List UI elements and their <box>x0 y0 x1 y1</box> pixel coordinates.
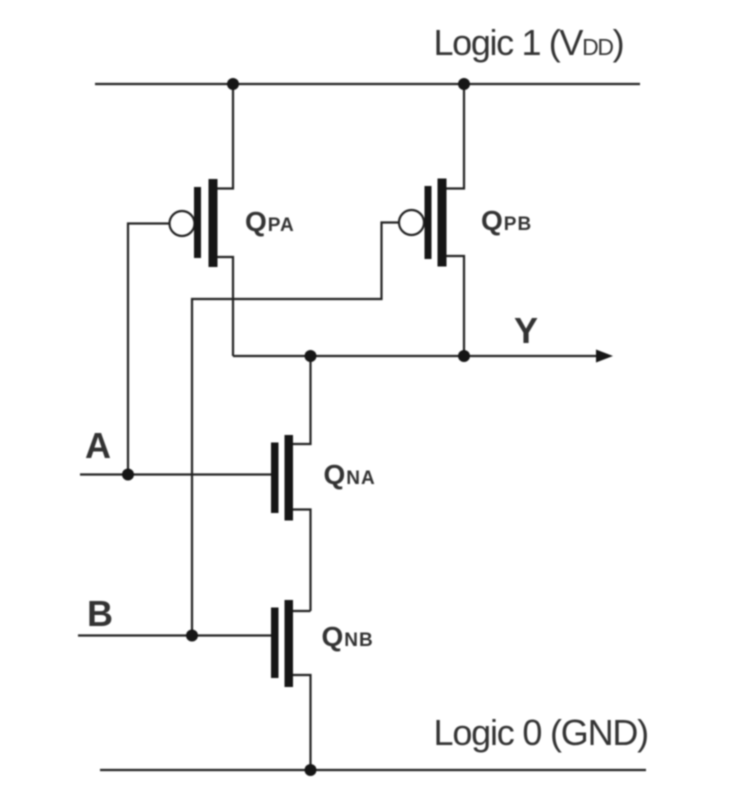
svg-text:A: A <box>85 425 111 466</box>
svg-text:QNB: QNB <box>322 621 374 652</box>
svg-text:B: B <box>87 593 113 634</box>
svg-text:Y: Y <box>514 310 538 351</box>
svg-text:QNA: QNA <box>324 459 376 490</box>
svg-text:QPA: QPA <box>245 206 295 237</box>
svg-text:Logic 1 (VDD): Logic 1 (VDD) <box>434 22 624 63</box>
svg-text:Logic 0 (GND): Logic 0 (GND) <box>434 712 648 753</box>
svg-text:QPB: QPB <box>481 205 532 236</box>
